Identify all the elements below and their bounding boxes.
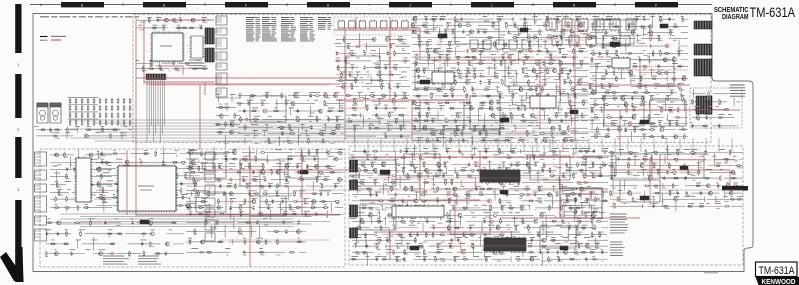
svg-text:KENWOOD: KENWOOD (762, 277, 796, 285)
bottom-right parts block (608, 146, 743, 212)
left connector column CN10-CN15 (35, 152, 47, 241)
red wiring overlay (127, 18, 740, 267)
title text SCHEMATIC DIAGRAM (714, 5, 749, 21)
bottom-left check mark (0, 247, 24, 282)
lower-left sparse parts (45, 219, 184, 257)
svg-text:J: J (409, 3, 411, 7)
svg-text:F: F (245, 3, 247, 7)
connector CN201 (146, 74, 166, 80)
svg-text:E: E (204, 3, 206, 7)
IF IC U4 (530, 94, 556, 109)
title text TM-631A (750, 5, 796, 20)
MCU surroundings (96, 147, 208, 213)
transformer T1 T2 (37, 103, 61, 123)
PLL bottom dense block (349, 144, 608, 265)
svg-text:TM-631A: TM-631A (759, 265, 796, 277)
diode matrix (68, 98, 131, 126)
connector J104 (696, 96, 712, 114)
svg-text:M: M (532, 3, 535, 7)
IC IC2 DIP (189, 36, 204, 58)
svg-text:2: 2 (17, 128, 19, 132)
speaker sub box parts (690, 89, 740, 128)
IF filter chain (334, 17, 412, 35)
connector J101 (694, 21, 712, 29)
model number box TM-631A (756, 262, 798, 277)
connector column lower parts (215, 94, 240, 148)
shield sub-block outlines top (250, 20, 686, 130)
svg-text:L: L (491, 3, 493, 7)
IC IC11 microcontroller QFP (116, 164, 177, 212)
IC IC1 QFP top-left (150, 31, 184, 62)
parts list text bottom-left (103, 256, 161, 264)
PCB outline control unit (40, 149, 345, 267)
filter chain red trace (334, 17, 420, 35)
IC U10 black (480, 168, 520, 183)
crystal cans / dark parts (140, 24, 688, 250)
inter-section vertical wires (355, 138, 732, 152)
IC U11 black (484, 236, 526, 252)
red loop around IC1 (144, 20, 214, 95)
IC U12 (392, 204, 444, 218)
mid-bottom parts (186, 216, 306, 255)
center oscillator parts (236, 92, 344, 145)
PCB outline TX-RX unit (133, 15, 711, 143)
connector hatch pair left of table (205, 28, 214, 62)
svg-text:TM-631A: TM-631A (750, 5, 796, 20)
center mid parts (345, 92, 410, 142)
bottom right list text B (610, 242, 625, 256)
black bar component (722, 186, 748, 191)
VCO shield box (560, 188, 602, 218)
tm label small (704, 272, 718, 274)
svg-text:DIAGRAM: DIAGRAM (722, 12, 749, 21)
red wiring overlay light (150, 30, 743, 246)
mixer IC U3 (432, 70, 454, 84)
IC10 surroundings (50, 150, 112, 211)
VCO parts (562, 187, 600, 217)
ceramic filter bank (470, 40, 530, 51)
IF transformer rows (546, 17, 636, 46)
connector column CN1-CN7 (216, 16, 227, 97)
connector J103 (694, 59, 712, 76)
legend signal/red line (40, 36, 66, 40)
IC1 peripheral parts (136, 17, 211, 72)
net label arrows right (730, 85, 746, 96)
shield sub-block outlines bottom (190, 154, 704, 248)
connector J102 (694, 44, 712, 55)
horizontal bus wires top (70, 120, 600, 141)
center upper parts (335, 33, 410, 90)
left mid parts (35, 127, 133, 140)
wire fan below CN201 (147, 80, 165, 142)
legend table near IC2 (189, 60, 203, 68)
svg-text:3: 3 (17, 188, 19, 192)
left registration film bar (15, 4, 23, 282)
svg-text:I: I (369, 3, 370, 7)
bottom right list text A (610, 214, 628, 233)
address bus lines (60, 214, 330, 227)
IC IC10 DIP left (74, 158, 92, 202)
audio IC U5 (612, 56, 630, 69)
signal name table (246, 18, 332, 41)
voltage note text (40, 16, 139, 18)
PCB outline PLL unit (349, 146, 743, 265)
PCB outline speaker sub box (690, 88, 742, 128)
center-right dense block (587, 13, 688, 142)
control logic parts (186, 146, 343, 220)
KENWOOD logo bar (756, 277, 799, 285)
top registration ruler bar (30, 2, 712, 7)
PLL unit edge connectors (350, 160, 358, 238)
inter-board connector column (205, 152, 215, 241)
center PLL dense block (411, 13, 588, 147)
svg-text:1: 1 (17, 63, 19, 67)
